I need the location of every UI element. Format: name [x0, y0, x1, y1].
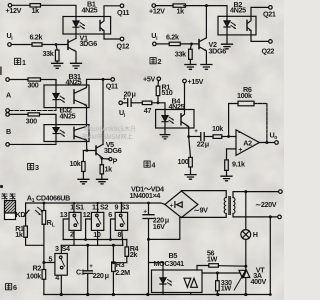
svg-text:9: 9 [115, 203, 119, 212]
resistor 300 (input B) [28, 113, 40, 116]
feedback wire to output [254, 104, 267, 143]
resistor 47 (fig4) [142, 101, 152, 105]
wire bridge bottom to cap column [149, 218, 180, 240]
LED inside B31 [53, 85, 59, 108]
node feedback [227, 135, 230, 138]
wire RL to node 5 [43, 224, 45, 262]
svg-text:+: + [238, 145, 242, 154]
lamp H [241, 230, 251, 240]
wire A- return to B31 cathode [9, 108, 56, 111]
wire 1k to node and LED anode B2 [184, 6, 227, 17]
terminal Q11 (fig3) [111, 78, 115, 82]
resistor 10k (fig4) [213, 135, 222, 139]
svg-text:μ: μ [165, 215, 169, 224]
terminal Ui (fig2) [153, 42, 157, 46]
switch S4 box [55, 254, 67, 276]
bridge diode symbol [174, 202, 176, 208]
svg-text:100: 100 [178, 157, 189, 166]
svg-text:6: 6 [108, 210, 112, 219]
LED emission arrows B2 [231, 22, 236, 28]
node rail triac [244, 293, 247, 296]
svg-text:2: 2 [158, 57, 162, 66]
arrows onto RL [35, 207, 42, 214]
svg-text:1: 1 [70, 203, 74, 212]
svg-text:12: 12 [83, 210, 91, 219]
resistor R6 100k [238, 101, 254, 106]
svg-text:1k: 1k [105, 165, 113, 174]
stray ink smudge left edge [0, 67, 2, 76]
wire MOC gate pin [202, 272, 240, 274]
wire lamp feed down [245, 192, 247, 230]
terminal +5V [157, 77, 161, 81]
LED inside B1 [73, 17, 79, 35]
wire secondary bottom to bridge bottom corner [181, 214, 226, 218]
wire MOC LED anode from cap column [149, 263, 164, 271]
optocoupler B4 4N25 box [156, 110, 194, 129]
svg-text:1W: 1W [221, 284, 232, 293]
svg-text:4N25: 4N25 [169, 102, 185, 111]
LED emission arrows B4 [169, 117, 174, 123]
wire 47 to LED node [152, 103, 165, 110]
output bus (pins 2,10,8 / C1 / R3) [61, 244, 123, 246]
terminal 220V bottom [278, 215, 282, 219]
node R1/47/LED anode [157, 101, 160, 104]
control pin 6 wire [111, 219, 116, 240]
resistor 9.1k [225, 160, 229, 171]
FIG3 GROUP [6, 78, 115, 184]
wire 33k to ground [56, 61, 58, 63]
wire R1 bottom to RL column [26, 237, 44, 245]
svg-text:4N25: 4N25 [230, 6, 246, 15]
top supply rail (fig6) [26, 203, 165, 205]
ground 33k (fig1) [52, 63, 63, 68]
wire plus input to 9.1k [227, 149, 237, 160]
svg-text:μ: μ [132, 90, 136, 99]
svg-text:A: A [6, 91, 11, 100]
svg-text:3: 3 [35, 163, 39, 172]
node bus6 [109, 238, 112, 241]
svg-text:2.2M: 2.2M [115, 268, 130, 277]
node junction 6.2k/33k (fig2) [190, 43, 193, 46]
wire emitter B1 to Q12 [104, 34, 120, 39]
svg-text:10k: 10k [212, 124, 223, 133]
node rail C1 [86, 293, 89, 296]
svg-text:9.1k: 9.1k [232, 160, 245, 169]
resistor R3 2.2M [112, 245, 114, 262]
switch S3 box [120, 203, 122, 212]
transformer secondary winding [224, 198, 226, 214]
label fig4 caption [144, 161, 150, 167]
resistor 1k (fig1) [30, 4, 41, 7]
svg-text:1: 1 [32, 198, 35, 204]
node rail return [269, 293, 272, 296]
wire emitter to P with arrow [102, 158, 109, 161]
svg-text:S3: S3 [121, 203, 129, 212]
feedback wire up [229, 104, 238, 137]
node emitter/100/22u [187, 135, 190, 138]
svg-text:6.2k: 6.2k [166, 33, 179, 42]
terminal 220V top [279, 190, 283, 194]
label fig2 caption [150, 58, 156, 64]
wire collector B2 to Q21 [251, 7, 269, 16]
wire emitter B2 to Q22 [251, 35, 269, 42]
svg-text:Q11: Q11 [106, 81, 118, 90]
ground LED B4 [160, 135, 170, 139]
LED inside B2 [224, 16, 230, 35]
terminal Q22 [269, 40, 273, 44]
node bus R3 [112, 244, 115, 247]
wire triac MT1 to rail [245, 278, 247, 295]
photoresistor RL [43, 203, 45, 211]
node rail S4 [60, 293, 63, 296]
resistor 33k (fig2) [189, 49, 193, 59]
wire B31 collector to Q11 (fig3) [87, 79, 112, 85]
svg-text:+12V: +12V [6, 6, 22, 15]
MOC LED cathode stub to rail [162, 293, 164, 295]
node cap/bridge minus [147, 238, 150, 241]
svg-text:16V: 16V [153, 222, 165, 231]
resistor 330 1W [216, 273, 218, 281]
wire +12V to R 1k (fig2) [155, 5, 173, 7]
phototransistor B2 [246, 20, 248, 30]
wire +15V to B4 collector [184, 83, 186, 110]
wire B32 emitter to base bus [86, 142, 88, 151]
LED inside B4 [162, 110, 168, 129]
svg-text:2k: 2k [130, 250, 138, 259]
svg-text:1N4001×4: 1N4001×4 [130, 191, 161, 200]
svg-text:1: 1 [22, 58, 26, 67]
switch S1 box [73, 203, 75, 212]
switch S2 box [97, 203, 99, 212]
svg-text:300: 300 [28, 81, 39, 90]
svg-text:4: 4 [152, 161, 156, 170]
magnet body (hatched) [5, 201, 16, 214]
svg-text:∼9V: ∼9V [194, 206, 208, 215]
label fig6 caption [6, 284, 12, 290]
node base V5 [85, 149, 88, 152]
FIG2 GROUP [152, 4, 272, 70]
wire A+ to R 300 [9, 79, 28, 81]
svg-text:22: 22 [197, 139, 205, 148]
node S2 pin11 [97, 202, 99, 204]
svg-text:S4: S4 [62, 244, 70, 253]
FIG1 GROUP [8, 4, 124, 69]
wire V5 collector to Q11 node [102, 79, 104, 144]
node S3 pin9 [120, 202, 122, 204]
wire MOC pin to R 56 [197, 266, 209, 271]
resistor 56 1W [209, 264, 219, 268]
wire base bus V5 [83, 150, 96, 152]
resistor 300 (input A) [28, 78, 41, 81]
wire Ui to C 20u [122, 102, 127, 104]
bridge rectifier VD1-VD4 [165, 191, 198, 218]
switch S1 output pin2 [73, 230, 75, 245]
LED emission arrows B32 [60, 130, 65, 136]
optocoupler B32 4N25 box [44, 125, 89, 142]
svg-text:4: 4 [55, 273, 59, 282]
wire node to C 22u [189, 136, 201, 138]
svg-text:Q21: Q21 [263, 9, 276, 18]
switch S4 pin4 wire [60, 275, 62, 294]
svg-text:3DG6: 3DG6 [209, 46, 227, 55]
LED inside MOC3041 [160, 270, 166, 293]
triac VT [239, 270, 250, 277]
terminal A+ (fig3) [6, 78, 10, 82]
phototransistor B1 [99, 21, 101, 31]
FIG6 GROUP [5, 190, 283, 296]
node gate resistor 56 [244, 265, 247, 268]
node output [265, 141, 268, 144]
svg-text:CD4066UB: CD4066UB [36, 193, 70, 202]
resistor 1k (fig2) [173, 4, 186, 7]
wire junction to 33k (fig2) [190, 44, 191, 49]
wire 20u to R 47 [132, 102, 143, 104]
MOC output stub to rail [190, 293, 192, 295]
switch S3 output pin8 [122, 230, 123, 245]
resistor R2 100k [43, 263, 45, 270]
switch S2 contacts [96, 214, 99, 217]
node emitter V5 [100, 157, 103, 160]
terminal +12V (fig1) [8, 4, 12, 8]
svg-text:4N25: 4N25 [82, 5, 98, 14]
wire 300 to LED anode B31 [41, 80, 57, 86]
op-amp A2 [236, 130, 259, 156]
svg-text:∼220V: ∼220V [255, 200, 277, 209]
wire 6.2k to base V2 [180, 43, 199, 45]
resistor 33k (fig1) [55, 50, 59, 61]
wire gate lead triac [234, 274, 243, 290]
node Q11/V5 collector [102, 78, 105, 81]
terminal Q11 (fig1) [120, 4, 124, 8]
ground V1 (fig1) [71, 63, 82, 68]
svg-text:4N25: 4N25 [66, 78, 82, 87]
svg-text:KD: KD [16, 210, 26, 219]
svg-text:33k: 33k [43, 49, 54, 58]
svg-text:3DG6: 3DG6 [80, 39, 98, 48]
capacitor 22u [201, 133, 204, 141]
wire LED cathode to V1 collector [75, 34, 77, 38]
node S1 pin1 [73, 202, 75, 204]
ground V2 [201, 65, 212, 70]
wire Ui to R 6.2k (fig2) [156, 43, 169, 45]
wire 300 to LED anode B32 [40, 114, 57, 124]
wire 56 to MT2 node [218, 265, 245, 268]
svg-text:Q22: Q22 [262, 46, 275, 55]
svg-text:300: 300 [26, 117, 37, 126]
label fig3 caption [28, 164, 34, 170]
LED arrows MOC [168, 280, 172, 286]
node return [269, 215, 272, 218]
svg-text:13: 13 [60, 210, 68, 219]
switch S1 contacts [73, 214, 76, 217]
svg-text:1k: 1k [177, 6, 185, 15]
node bus C1 [86, 244, 89, 247]
resistor 1k (fig3) [101, 158, 103, 164]
capacitor 220u 16V column [148, 203, 150, 214]
phototransistor B32 [73, 127, 75, 138]
terminal P (fig3) [109, 158, 112, 161]
wire op-amp output to Uo [259, 142, 275, 144]
svg-text:4N25: 4N25 [60, 111, 76, 120]
wire 1k to LED anode B1 (fig1) [41, 5, 77, 16]
svg-text:C1: C1 [76, 267, 85, 276]
ground 10k (fig3) [78, 179, 89, 184]
node R2/S4 pin5 [42, 261, 45, 264]
ground 100 (fig4) [185, 175, 196, 180]
svg-text:6: 6 [13, 283, 17, 292]
optocoupler B5 MOC3041 box [152, 270, 203, 293]
svg-text:33k: 33k [175, 49, 186, 58]
resistor 10k (fig3) [82, 151, 84, 162]
svg-text:H: H [253, 230, 258, 239]
resistor 100 (fig4) [189, 137, 191, 158]
svg-text:o: o [274, 135, 277, 141]
svg-text:P: P [113, 157, 118, 166]
svg-text:6.2k: 6.2k [30, 33, 43, 42]
wire return to ground rail [269, 217, 271, 295]
transformer core [229, 197, 230, 215]
svg-text:MOC3041: MOC3041 [154, 259, 185, 268]
magnetodiode KD slash [24, 210, 29, 216]
svg-text:1k: 1k [32, 6, 40, 15]
wire collector B1 to Q11 [104, 6, 120, 17]
transformer primary winding [233, 198, 235, 214]
transistor V5 3DG6 [95, 146, 97, 155]
svg-text:8: 8 [118, 230, 122, 239]
ground 33k (fig2) [185, 65, 196, 70]
wire V2 emitter to ground [205, 51, 207, 64]
svg-text:μ: μ [205, 139, 209, 148]
wire primary bottom to 220V terminal [233, 214, 278, 217]
terminal Ui (fig4) [119, 101, 123, 105]
magnetodiode KD wire [25, 203, 27, 226]
svg-text:100k: 100k [237, 91, 252, 100]
transistor V2 3DG6 [198, 40, 200, 49]
terminal B+ (fig3) [6, 113, 10, 117]
svg-text:400V: 400V [251, 277, 267, 286]
node R3/R4 [112, 261, 115, 264]
control pin 12 wire [86, 219, 92, 240]
wire B4 emitter to signal node [188, 128, 190, 137]
wire 6.2k to base V1 [42, 44, 68, 46]
wire LED cathode B2 to ground [226, 35, 228, 44]
svg-text:10: 10 [93, 230, 101, 239]
label fig1 caption [15, 58, 21, 64]
svg-text:A2: A2 [243, 139, 252, 148]
stray ink dot left edge [0, 185, 3, 188]
resistor 6.2k (fig2) [169, 42, 180, 45]
svg-text:3: 3 [55, 244, 59, 253]
wire V1 emitter to ground [75, 52, 77, 64]
node junction 6.2k/33k (fig1) [55, 43, 58, 46]
wire LED cathode B4 to ground [164, 128, 166, 135]
wire junction to 33k [56, 45, 57, 51]
control bus (pins 13,12,6 to R4) [63, 239, 127, 241]
svg-text:220: 220 [93, 271, 104, 280]
svg-text:邮4M电6M5M网上: 邮4M电6M5M网上 [82, 133, 133, 141]
svg-text:Q12: Q12 [117, 42, 130, 51]
svg-text:μ: μ [105, 271, 109, 280]
svg-text:2: 2 [70, 230, 74, 239]
label magnet (cjk) [2, 193, 16, 199]
ground 9.1k [221, 176, 232, 181]
capacitor C1 220u [87, 245, 89, 270]
svg-text:100k: 100k [26, 271, 41, 280]
node 330 top [216, 272, 219, 275]
bottom ground rail (fig6) [44, 294, 270, 296]
resistor R1 1k (fig6) [24, 226, 28, 237]
node RL top [43, 202, 46, 205]
capacitor 20u (fig4) [128, 99, 131, 107]
switch S4 pin3 wire [60, 245, 62, 253]
wire Ui to R 6.2k (fig1) [11, 44, 32, 46]
LED emission arrows B31 [60, 96, 65, 102]
wire lamp to triac MT2 [245, 239, 247, 270]
svg-text:5: 5 [49, 254, 53, 263]
ground LED B2 [222, 44, 233, 49]
wire 33k to ground (fig2) [189, 59, 191, 64]
optocoupler B1 4N25 box [63, 17, 111, 35]
node rail R3 [112, 293, 115, 296]
wire 10k to op-amp minus input [222, 136, 236, 138]
svg-text:−: − [238, 128, 242, 137]
node rail 330 [216, 293, 219, 296]
svg-text:+5V: +5V [143, 74, 155, 83]
node lamp feed [244, 190, 247, 193]
FIG4 GROUP [119, 77, 278, 181]
wire B+ to R 300 [9, 113, 28, 115]
node 220u top [147, 202, 150, 205]
wire 22u to R 10k [205, 136, 213, 138]
node collector V2 / LED feed [205, 4, 208, 7]
LED emission arrows B1 [80, 23, 85, 29]
LED inside B32 [53, 125, 59, 142]
svg-text:1k: 1k [15, 230, 23, 239]
svg-text:理tp//(wrt69c5木升: 理tp//(wrt69c5木升 [84, 125, 136, 133]
svg-text:10k: 10k [70, 159, 81, 168]
control pin 13 wire [63, 219, 69, 240]
terminal Q21 [269, 6, 273, 10]
resistor R1 510 [157, 80, 159, 86]
svg-text:S2: S2 [100, 203, 108, 212]
wire B- return to B32 cathode [9, 142, 56, 145]
switch S2 output pin10 [97, 230, 99, 245]
terminal Uo [275, 141, 279, 145]
switch S3 contacts [119, 214, 122, 217]
triac symbol inside MOC [184, 278, 197, 287]
svg-text:B: B [6, 127, 11, 136]
wire node to S4 pin5 [44, 262, 55, 264]
terminal +12V (fig2) [152, 4, 156, 8]
resistor 6.2k (fig1) [32, 43, 42, 46]
svg-text:+15V: +15V [188, 77, 204, 86]
terminal A- (fig3) [6, 109, 10, 113]
svg-text:Q11: Q11 [117, 8, 129, 17]
terminal Q12 (fig1) [120, 37, 124, 41]
wire primary top to 220V terminal [233, 192, 279, 198]
terminal +15V [183, 79, 187, 83]
svg-text:47: 47 [144, 106, 152, 115]
svg-text:11: 11 [92, 203, 99, 212]
optocoupler B31 4N25 box [44, 85, 89, 108]
terminal Ui (fig1) [8, 43, 12, 47]
svg-text:1W: 1W [207, 254, 218, 263]
phototransistor B31 [73, 90, 75, 103]
svg-text:3DG6: 3DG6 [104, 146, 122, 155]
node rail cap column [146, 293, 149, 296]
wire +12V to R 1k (fig1) [12, 4, 30, 6]
transistor V1 3DG6 [67, 40, 69, 49]
